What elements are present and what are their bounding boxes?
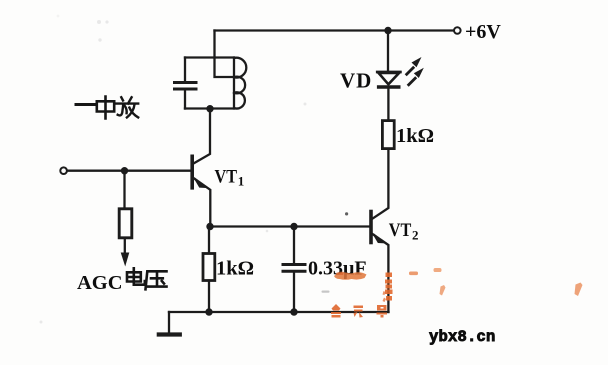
orange dash right 1 — [409, 272, 418, 276]
ground — [168, 312, 170, 333]
LED light arrow 2 — [407, 68, 424, 87]
glyph zhong — [97, 97, 114, 119]
terminal input open circle — [60, 167, 67, 174]
node LED at rail — [384, 27, 391, 34]
label AGC dianya — [77, 272, 123, 294]
LED light arrow 1 — [405, 57, 422, 76]
node tank-collector junction — [206, 105, 213, 112]
orange dash right 2 — [434, 268, 442, 272]
wire VT2 emitter — [372, 234, 388, 312]
emitter arrow VT2 — [373, 234, 384, 243]
wire R1 lower — [208, 281, 210, 313]
capacitor C1 tank — [175, 83, 197, 90]
wire C2 lower stub — [293, 273, 295, 313]
wire AGC branch lower — [124, 238, 126, 254]
resistor R1 1k — [203, 254, 215, 281]
inductor L1 tank coil — [234, 58, 246, 109]
svg-text:+6V: +6V — [465, 21, 501, 43]
orange vertical strip on VT2 emitter — [383, 273, 393, 303]
wire tank left lower — [184, 91, 186, 109]
svg-text:VT: VT — [215, 167, 238, 188]
glyph fang — [116, 97, 138, 117]
faint scan specks — [40, 15, 307, 324]
wire top supply rail — [215, 29, 453, 31]
orange smear under 0.33uF — [334, 272, 367, 279]
svg-text:1kΩ: 1kΩ — [396, 125, 434, 147]
wire bottom ground rail — [169, 311, 389, 313]
transistor Q VT2 — [369, 212, 373, 243]
svg-text:AGC: AGC — [77, 272, 123, 294]
node AGC junction — [121, 167, 128, 174]
orange glyph huan on bottom wire — [354, 306, 364, 318]
node emitter junction VT1 — [206, 223, 213, 230]
resistor R-AGC — [119, 209, 132, 238]
watermark orange marks — [322, 212, 583, 317]
transistor Q VT1 — [190, 156, 194, 188]
wire AGC branch upper — [123, 171, 125, 209]
wire tank bottom — [185, 107, 234, 109]
gray dash speck left of strip — [322, 291, 330, 293]
orange glyph xing on bottom wire — [377, 305, 388, 318]
node C2 bottom — [290, 308, 297, 315]
orange right-edge diagonal — [575, 283, 583, 297]
node capacitor branch — [290, 223, 297, 230]
orange glyph jin on bottom wire — [331, 304, 341, 318]
svg-text:1: 1 — [238, 174, 245, 189]
capacitor C2 0.33uF — [283, 265, 305, 272]
wire C2 upper stub — [293, 227, 295, 264]
glyph yi — [76, 103, 95, 106]
svg-text:1kΩ: 1kΩ — [216, 258, 254, 280]
wire emitter node to VT2 base — [209, 225, 370, 227]
svg-text:VD: VD — [340, 69, 372, 93]
wire base VT1 — [67, 170, 191, 172]
dark speck near VT2 — [345, 212, 348, 215]
orange diagonal blob — [440, 285, 446, 296]
svg-text:ybx8.cn: ybx8.cn — [429, 328, 496, 346]
wire tank top — [185, 56, 234, 58]
wire R2 to LED — [387, 89, 389, 121]
svg-text:VT: VT — [389, 220, 412, 241]
arrow AGC down — [121, 253, 130, 267]
wire LED anode stub — [387, 31, 389, 71]
resistor R2 1k — [382, 121, 394, 149]
wire VT1 collector — [193, 109, 210, 164]
wire coil tap vertical from rail — [215, 31, 234, 78]
terminal +6V open circle — [454, 27, 461, 34]
glyph dian — [127, 268, 145, 284]
wire R1 upper — [208, 227, 210, 254]
wire VT2 collector — [372, 149, 388, 219]
wire VT1 emitter — [193, 178, 210, 227]
wire tank left upper — [184, 58, 186, 82]
LED VD — [377, 72, 400, 87]
emitter arrow VT1 — [195, 178, 206, 187]
node R1 bottom — [205, 308, 212, 315]
glyph ya — [146, 271, 167, 289]
svg-text:2: 2 — [412, 228, 419, 243]
